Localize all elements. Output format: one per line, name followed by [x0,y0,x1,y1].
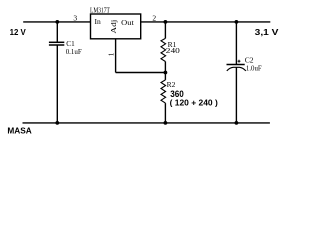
svg-text:MASA: MASA [7,126,31,136]
junction node Adj/divider [164,71,168,75]
capacitor C1 plates [49,42,64,45]
capacitor C1 leads [56,22,58,123]
junction node at C1 top [55,20,59,24]
junction node at C1 bottom [55,121,59,125]
junction node at R1 top [164,20,168,24]
wire: regulator Out pin to output rail right end [141,21,271,23]
svg-text:360: 360 [170,89,184,99]
capacitor C2 (electrolytic) leads [235,22,237,123]
svg-text:In: In [95,17,101,26]
regulator U1 LM317T body [91,14,141,39]
svg-text:0.1uF: 0.1uF [66,47,82,56]
polarity plus sign [238,60,241,63]
wire: Adj pin down and over to divider node [116,39,166,73]
svg-text:12 V: 12 V [10,27,26,37]
svg-text:Adj: Adj [109,20,118,34]
svg-text:Out: Out [121,18,135,27]
resistor R1 (240 ohm) [161,22,166,73]
svg-text:3,1 V: 3,1 V [255,27,279,37]
junction node at C2 top [235,20,239,24]
svg-text:240: 240 [166,46,180,55]
svg-text:1: 1 [107,52,116,56]
svg-text:1.0uF: 1.0uF [246,63,262,72]
ground rail wire MASA [23,122,270,124]
svg-text:2: 2 [152,13,156,22]
capacitor C2 top plate [227,64,245,66]
resistor R2 (360 ohm) [161,73,166,123]
svg-text:R2: R2 [167,80,176,89]
wire: 12V input to regulator In pin [23,21,90,23]
capacitor C2 curved plate [227,67,246,71]
junction node at R2 bottom [164,121,168,125]
svg-text:3: 3 [73,13,77,22]
svg-text:LM317T: LM317T [90,7,110,15]
junction node at C2 bottom [235,121,239,125]
svg-text:( 120 + 240 ): ( 120 + 240 ) [170,98,219,107]
